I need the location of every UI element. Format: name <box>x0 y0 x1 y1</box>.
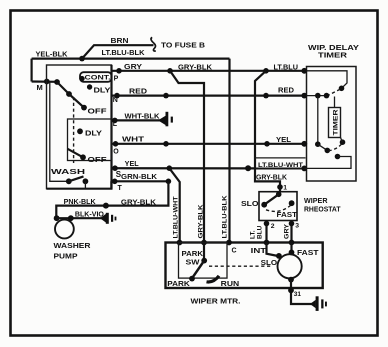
junction dot N start <box>114 93 120 99</box>
contact dot DLY 2 <box>77 128 83 134</box>
wiper switch box <box>47 65 112 189</box>
svg-text:LT.BLU: LT.BLU <box>274 65 299 72</box>
wire YEL S to timer LT.BLU-WHT <box>112 167 305 169</box>
wire GRY P to timer <box>112 70 305 72</box>
svg-text:FAST: FAST <box>297 250 319 257</box>
wire BLK-VIO <box>56 217 104 219</box>
svg-text:LT.BLU-BLK: LT.BLU-BLK <box>222 195 229 238</box>
park lever <box>192 261 204 279</box>
wire wash feed <box>50 82 69 182</box>
contact dot DLY 1 <box>87 84 92 89</box>
svg-text:GRY-BLK: GRY-BLK <box>178 64 212 71</box>
overline mark <box>255 157 306 159</box>
mechanical link dashed motor <box>209 265 272 267</box>
timer entry dot LT.BLU-WHT <box>301 166 307 172</box>
svg-text:T: T <box>118 185 123 192</box>
svg-text:RHEOSTAT: RHEOSTAT <box>304 207 341 214</box>
rheostat resistance dashed arc <box>266 206 291 212</box>
wiper motor box <box>166 243 323 289</box>
junction dot BRN tap <box>79 56 85 62</box>
switch lever 1 feed <box>57 82 69 94</box>
fuse link squiggle <box>151 37 156 51</box>
timer dashed contact lower <box>329 144 343 151</box>
svg-text:FAST: FAST <box>277 212 298 219</box>
timer dashed contact upper <box>328 89 341 95</box>
wire INT to slow brush <box>267 243 279 257</box>
wash switch lever <box>69 176 84 181</box>
wire WHT-BLK L <box>112 119 161 121</box>
svg-text:BLK-VIO: BLK-VIO <box>75 211 105 218</box>
bottom brush dot <box>288 277 294 283</box>
wire GRN-BLK T <box>112 180 169 182</box>
junction dot S start <box>112 165 118 171</box>
svg-text:WASHER: WASHER <box>54 241 92 250</box>
svg-text:SW: SW <box>186 259 200 266</box>
junction dot GRY-BLK branch <box>167 68 173 74</box>
svg-text:GRY-BLK: GRY-BLK <box>198 204 205 238</box>
svg-text:RED: RED <box>278 88 294 95</box>
svg-text:OFF: OFF <box>88 157 108 164</box>
wash switch contact right <box>83 178 89 184</box>
timer entry dot RED <box>301 93 307 99</box>
park pivot dot <box>201 258 207 264</box>
svg-text:2: 2 <box>271 223 275 230</box>
wire rheostat 3 to motor <box>290 221 292 243</box>
mechanical linkage dashed <box>73 97 75 163</box>
junction dot L <box>112 118 118 124</box>
switch lever 2 <box>68 149 84 158</box>
switch lever 1 to OFF <box>69 94 84 108</box>
contact dot OFF 2 <box>80 154 86 160</box>
junction dot M lever feed <box>54 79 60 85</box>
switch pivot dot 1 <box>66 91 72 97</box>
splice dot RED 2 <box>263 93 269 99</box>
svg-text:LT.: LT. <box>250 230 257 239</box>
wire LT.BLU-WHT bus <box>169 168 179 242</box>
delay switch section box <box>68 119 112 161</box>
junction dot rheostat 1 <box>277 184 283 190</box>
timer contact dot row3 <box>325 148 331 154</box>
wire wash to T <box>84 181 86 188</box>
junction dot P start <box>116 68 122 74</box>
svg-text:PARK: PARK <box>182 251 204 258</box>
svg-text:C: C <box>232 247 237 254</box>
slow brush dot <box>276 253 282 259</box>
rheostat pivot dot <box>276 192 282 198</box>
rheostat contact dot SLO <box>261 202 267 208</box>
svg-text:WHT-BLK: WHT-BLK <box>125 113 160 120</box>
junction dot LT.BLU-WHT branch <box>167 165 173 171</box>
junction dot pump top <box>54 215 60 221</box>
svg-text:O: O <box>113 149 119 156</box>
motor terminal dot LT.BLU-WHT <box>177 240 183 246</box>
capacitor suppressor L <box>158 116 166 125</box>
junction dot M box edge <box>44 79 50 85</box>
timer element feed top <box>334 97 336 108</box>
switch box bottom wire T net <box>47 181 112 188</box>
motor terminal dot INT <box>264 240 270 246</box>
timer dot row2 a <box>315 93 321 99</box>
wire YEL-BLK horizontal / LT.BLU-BLK feed <box>32 57 230 59</box>
capacitor suppressor pump <box>100 214 106 223</box>
svg-text:GRY-BLK: GRY-BLK <box>256 174 287 181</box>
svg-text:1: 1 <box>283 184 287 191</box>
timer internal row2 <box>307 95 327 97</box>
switch bus right edge <box>110 65 112 189</box>
wire BRN to fuse <box>82 45 154 58</box>
CONT contact box <box>80 72 112 82</box>
wire GRY-BLK bus <box>170 71 204 243</box>
rheostat lever <box>264 194 279 204</box>
splice dot WHT 1 <box>163 141 169 147</box>
park switch inner box <box>179 243 228 279</box>
wire T to washer pump <box>56 181 168 218</box>
svg-text:RUN: RUN <box>221 281 240 288</box>
wiper rheostat box <box>259 192 297 221</box>
timer internal bottom loop <box>304 157 351 169</box>
svg-text:DLY: DLY <box>94 88 111 95</box>
svg-text:YEL: YEL <box>276 137 292 144</box>
svg-text:WIPER MTR.: WIPER MTR. <box>191 297 241 306</box>
timer dot row2 b <box>324 93 330 99</box>
svg-text:GRN-BLK: GRN-BLK <box>121 174 157 181</box>
svg-text:BLU: BLU <box>257 225 264 239</box>
svg-text:INT: INT <box>251 248 267 255</box>
splice dot WHT 2 <box>264 141 270 147</box>
svg-text:LT.BLU-WHT: LT.BLU-WHT <box>172 196 179 238</box>
timer contact dot upper <box>339 86 345 92</box>
svg-text:RED: RED <box>129 89 147 96</box>
timer element box <box>329 108 341 138</box>
timer dot row3 <box>315 141 321 147</box>
svg-text:LT.BLU-BLK: LT.BLU-BLK <box>102 50 145 57</box>
svg-text:TO FUSE B: TO FUSE B <box>161 40 205 49</box>
junction dot BLK-VIO <box>68 215 74 221</box>
motor terminal dot FAST <box>289 240 295 246</box>
svg-text:TIMER: TIMER <box>318 52 347 59</box>
run contact arc <box>207 276 220 282</box>
svg-text:PNK-BLK: PNK-BLK <box>64 199 96 206</box>
svg-text:PARK: PARK <box>167 281 190 288</box>
wire RED N to timer <box>112 94 305 96</box>
contact dot OFF 1 <box>81 105 87 111</box>
svg-text:GRY: GRY <box>284 223 291 239</box>
timer moving contact dot <box>335 154 341 160</box>
contact dot CONT <box>79 76 84 81</box>
svg-text:CONT.: CONT. <box>85 75 111 82</box>
svg-text:GRY: GRY <box>124 64 142 71</box>
svg-text:LT.BLU-WHT: LT.BLU-WHT <box>258 162 304 169</box>
park switch feed wire <box>203 243 205 261</box>
wash switch contact left <box>66 178 72 184</box>
wire LT.BLU branch to rheostat 1 <box>255 71 280 192</box>
wire rheostat 2 to motor <box>265 221 267 243</box>
splice dot YEL <box>245 165 251 171</box>
svg-text:WIPER: WIPER <box>304 198 328 205</box>
node M wire <box>32 80 57 83</box>
junction dot box bottom <box>288 287 294 293</box>
svg-text:WHT: WHT <box>122 136 145 143</box>
junction dot pump branch <box>166 179 172 185</box>
park contact dot <box>189 276 195 282</box>
fast brush dot <box>289 250 295 256</box>
svg-text:OFF: OFF <box>88 109 108 116</box>
svg-text:BRN: BRN <box>111 38 129 45</box>
svg-text:P: P <box>114 76 119 83</box>
svg-text:TIMER: TIMER <box>333 109 340 135</box>
svg-text:31: 31 <box>294 291 302 298</box>
svg-text:SLO: SLO <box>241 201 259 208</box>
wire WHT O to timer YEL <box>112 143 305 145</box>
svg-text:GRY-BLK: GRY-BLK <box>121 199 156 206</box>
junction dot O start <box>113 141 119 147</box>
junction dot rheostat 2 <box>264 221 270 227</box>
junction dot rheostat 3 <box>289 221 295 227</box>
rheostat contact dot FAST <box>289 200 295 206</box>
wire FAST to brush <box>290 243 292 253</box>
svg-text:M: M <box>37 83 43 92</box>
svg-text:3: 3 <box>295 222 299 229</box>
timer internal top loop <box>307 71 348 89</box>
svg-text:YEL: YEL <box>125 161 140 168</box>
motor terminal dot C <box>226 240 232 246</box>
wire motor ground <box>291 280 314 304</box>
timer contact dot lower fixed <box>340 139 346 145</box>
timer row3 diag <box>318 144 328 150</box>
timer link to element <box>341 138 343 143</box>
washer pump motor circle <box>55 220 74 239</box>
svg-text:WASH: WASH <box>51 167 85 176</box>
wiper motor armature circle <box>278 254 302 278</box>
timer internal left vertical <box>317 96 319 145</box>
svg-text:PUMP: PUMP <box>54 251 78 260</box>
timer entry dot LT.BLU <box>301 68 307 74</box>
wire LT.BLU-BLK bus <box>228 59 230 243</box>
motor terminal dot GRY-BLK <box>201 240 207 246</box>
wire YEL-BLK drop to M <box>31 59 33 82</box>
svg-text:DLY: DLY <box>85 130 102 137</box>
splice dot PNK-BLK <box>103 203 109 209</box>
svg-text:WIP. DELAY: WIP. DELAY <box>308 45 359 52</box>
junction dot T start <box>112 179 118 185</box>
svg-text:YEL-BLK: YEL-BLK <box>36 52 68 59</box>
timer entry dot YEL <box>301 141 307 147</box>
splice dot RED 1 <box>163 93 169 99</box>
ground symbol <box>310 300 316 308</box>
wiper delay timer box <box>307 67 357 182</box>
junction dot LT.BLU branch <box>263 68 269 74</box>
